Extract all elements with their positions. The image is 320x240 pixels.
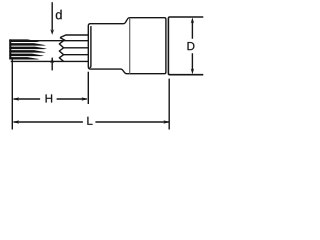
- hex end zigzag: [59, 41, 63, 62]
- arrowhead D up: [191, 17, 194, 23]
- arrowhead L right: [163, 120, 169, 123]
- label H: [46, 94, 53, 102]
- collar inner face line: [90, 26, 91, 67]
- hex facet line 3: [64, 54, 89, 56]
- bit shank bottom outline: [11, 60, 89, 62]
- hex facet line 2: [64, 47, 89, 49]
- socket collar and body outline: [88, 18, 166, 74]
- right L extension line: [168, 79, 170, 130]
- arrowhead H left: [13, 97, 19, 100]
- dimension line H: [14, 98, 87, 100]
- H extension line at collar face: [87, 72, 89, 104]
- arrowhead H right: [81, 97, 87, 100]
- socket body front face line: [129, 18, 131, 74]
- left extension line: [11, 59, 13, 130]
- arrowhead L left: [13, 120, 19, 123]
- socket end face and D extension lines: [168, 17, 203, 75]
- arrowhead d up: [50, 58, 54, 64]
- dimension line D: [191, 22, 193, 70]
- bit shank top outline: [9, 40, 88, 42]
- spline bit tip (black tooth wedges): [9, 39, 47, 59]
- hex corner upper line with wedge: [60, 35, 88, 41]
- dimension line d: [51, 2, 53, 30]
- label D: [188, 42, 195, 50]
- dimension line L: [14, 121, 169, 123]
- arrowhead d down: [50, 29, 54, 35]
- label d: [56, 10, 62, 20]
- arrowhead D down: [191, 68, 194, 74]
- label L: [87, 117, 92, 125]
